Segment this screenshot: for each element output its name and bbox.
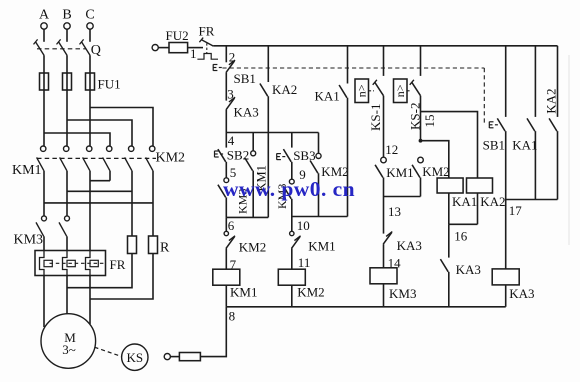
fuse FU1 phase C	[86, 73, 95, 90]
FR heater element B	[63, 251, 68, 276]
wire node7 to KM1 coil	[225, 248, 227, 269]
svg-text:KM2: KM2	[422, 164, 449, 179]
coil KM2	[278, 269, 305, 285]
speed switch KS-2 box n>	[394, 79, 408, 103]
switch Q pole B	[58, 42, 67, 56]
coil KM3	[370, 268, 397, 284]
pushbutton SB2 (NO)	[218, 149, 226, 162]
wire KA2 right to node 17	[557, 131, 559, 199]
wire KA1 right to node 17	[534, 131, 536, 199]
resistor R1	[128, 236, 137, 254]
junction dot	[419, 139, 423, 143]
wire dot to KA1 coil	[421, 141, 449, 178]
wire phase C drop	[89, 29, 91, 42]
coil KA2	[467, 178, 493, 193]
svg-text:C: C	[85, 8, 94, 23]
switch Q pole A	[35, 42, 44, 56]
SB1 linkage dashed horizontal	[222, 67, 484, 69]
wire phase B drop	[66, 29, 68, 42]
control supply terminal	[152, 45, 158, 51]
svg-text:15: 15	[422, 115, 437, 128]
wire FR out C to motor	[89, 276, 91, 325]
wire KM2 pole1 output	[109, 171, 111, 181]
svg-text:KM2: KM2	[239, 240, 266, 255]
svg-text:SB1: SB1	[483, 137, 505, 152]
wire SB3 to KM3 aux right	[291, 162, 293, 179]
wire node10 to KM1 NC	[291, 217, 293, 232]
wire rail to KA2 contact	[267, 46, 269, 82]
wire FU2 to FR contact	[188, 47, 203, 49]
wire KA2 coil bottom	[477, 193, 479, 224]
contactor aux contact KM2 (KS branch)	[418, 157, 424, 163]
wire KM1 pole A output	[43, 171, 45, 216]
wire node4 to SB2	[225, 133, 227, 148]
relay contact KA3 (NO) bottom	[440, 259, 448, 272]
svg-text:www. pw0. cn: www. pw0. cn	[223, 177, 355, 201]
svg-text:KM2: KM2	[156, 151, 186, 166]
contactor KM2 main contacts	[107, 146, 112, 151]
svg-text:KA2: KA2	[480, 194, 505, 209]
relay contact KA3 (NC) nodes 3-4	[226, 98, 235, 110]
svg-text:KM1: KM1	[230, 285, 257, 300]
wire KS-1 to node 12	[383, 96, 385, 158]
contactor contact KM2 (NC) nodes 6-7	[224, 231, 228, 235]
svg-text:3~: 3~	[62, 342, 76, 357]
wire rail to KA2 right	[557, 46, 559, 117]
wire KM3 out 1	[43, 236, 45, 250]
wire node17 to KA3 coil	[505, 200, 507, 269]
wire node15 tap to KA2 coil	[421, 112, 478, 178]
wire KM1 aux down	[383, 178, 385, 197]
pushbutton SB1 stop (NC)	[226, 61, 235, 73]
wire node4 to KM2 selflock	[318, 133, 320, 154]
wire node4 to KM1 selflock	[252, 133, 254, 151]
switch Q linkage dashed	[37, 48, 86, 50]
wire KM3 coil to rail 8	[383, 284, 385, 307]
wire SB1 right to node 17	[505, 131, 507, 199]
wire KA2 contact to node6	[267, 96, 269, 217]
wire KM1 selflock to node6	[252, 171, 254, 218]
node 6 horizontal wire	[226, 216, 268, 218]
wire KM3aux to node6	[225, 197, 227, 217]
wire node11 to KM2 coil	[291, 248, 293, 269]
svg-text:KM1: KM1	[12, 163, 42, 178]
svg-text:KM2: KM2	[297, 285, 324, 300]
wire R2 bottom join	[90, 254, 153, 300]
fuse FU2	[169, 43, 188, 53]
relay contact KA1 (NO)	[339, 85, 347, 98]
wire A to fuse	[43, 55, 45, 146]
FR contact (NC thermal)	[201, 40, 213, 47]
svg-text:12: 12	[385, 142, 398, 157]
wire join KM1/KM2 aux bottoms	[384, 196, 421, 198]
svg-text:13: 13	[388, 204, 401, 219]
svg-text:KS: KS	[126, 350, 143, 365]
wire FR out A to motor	[43, 276, 45, 328]
wire KM2 aux down to join	[420, 178, 422, 197]
svg-text:10: 10	[297, 218, 310, 233]
wire KM1 pole C output down to FR	[89, 171, 91, 251]
svg-text:KA3: KA3	[509, 286, 534, 301]
svg-text:B: B	[62, 8, 71, 23]
wire KM1 coil to rail 8	[225, 285, 227, 307]
FR heater element A	[40, 251, 45, 276]
contactor aux contact KM2 self-lock	[316, 153, 321, 158]
svg-text:KA1: KA1	[452, 194, 477, 209]
wire rail to KA1 right	[534, 46, 536, 117]
node 17 horizontal wire	[506, 199, 558, 201]
contactor KM3 contact 2	[65, 216, 70, 221]
wire KA1 contact to node10	[347, 98, 349, 217]
wire node14 to KM3 coil	[383, 244, 385, 268]
bottom rail (line 8)	[226, 306, 505, 308]
KM1 KM2 linkage dashed	[37, 157, 156, 159]
wire KM1 pole B output	[66, 171, 68, 216]
svg-text:KA1: KA1	[315, 88, 340, 103]
contactor aux contact KM1 (KS branch)	[381, 157, 387, 163]
speed relay KS linkage dashed	[95, 347, 122, 356]
wire KA3 coil to rail 8	[505, 285, 507, 307]
svg-text:FU1: FU1	[98, 77, 121, 92]
SB1 linkage dashed vertical	[483, 68, 485, 125]
control fuse bottom	[179, 353, 200, 361]
switch Q pole C	[81, 42, 90, 56]
wire node16 to KA3 contact	[448, 224, 450, 257]
svg-text:6: 6	[228, 218, 235, 233]
wire tap phase B to KM2 pole2	[67, 120, 132, 146]
wire bridge KM1C-KM2p1	[90, 180, 110, 182]
svg-text:KM1: KM1	[308, 238, 335, 253]
wire KM2 pole2 output to R1	[131, 171, 133, 236]
wire KA3 contact to rail 8	[448, 272, 450, 307]
speed switch KS-2 contact	[412, 82, 421, 96]
wire KM2 selflock to node10	[318, 173, 320, 216]
wire tap phase A to KM2 pole1	[44, 133, 110, 146]
wire KA3 to node 4	[225, 110, 227, 133]
pushbutton SB1 start-brake (NO) right	[488, 122, 490, 128]
wire R1 bottom join	[67, 254, 132, 288]
relay contact KA2 (NO) right	[549, 118, 557, 131]
wire KM3 out 2	[66, 236, 68, 250]
scan artifact right edge	[568, 55, 570, 245]
wire KM2 pole3 output to R2	[152, 171, 154, 236]
svg-text:17: 17	[509, 203, 523, 218]
svg-text:FR: FR	[110, 257, 126, 272]
wire node 16 horizontal	[449, 223, 478, 225]
wire rail to KS-2	[420, 46, 422, 76]
wire KM2 coil to rail 8	[291, 285, 293, 307]
speed switch KS-1 contact	[375, 82, 384, 96]
fuse FU1 phase A	[40, 73, 49, 90]
contactor aux contact KM3 (right)	[289, 179, 294, 184]
contactor aux contact KM1 self-lock	[251, 151, 256, 156]
wire B to fuse	[66, 55, 68, 146]
wire bridge B row	[67, 190, 132, 192]
wire rail to SB1	[225, 46, 227, 63]
svg-text:KA3: KA3	[456, 262, 481, 277]
wire rail to SB1 right	[505, 46, 507, 117]
svg-text:Q: Q	[91, 43, 101, 58]
svg-text:KM1: KM1	[386, 165, 413, 180]
wire SB2 to KM3 aux	[225, 162, 227, 178]
coil KA1	[437, 178, 463, 193]
wire SB1 to KA3	[225, 73, 227, 101]
svg-text:R: R	[160, 241, 170, 256]
svg-text:SB1: SB1	[234, 71, 256, 86]
svg-text:KA2: KA2	[543, 89, 558, 114]
node 10 horizontal wire	[292, 216, 348, 218]
wire rail to KA1 contact	[347, 46, 349, 84]
wire node4 to SB3	[291, 133, 293, 148]
svg-text:KS-1: KS-1	[368, 104, 383, 131]
pushbutton SB3 (NO)	[283, 149, 291, 162]
wire FR out B to motor	[66, 276, 68, 315]
relay contact KA2 (NO)	[260, 84, 268, 97]
thermal relay FR box	[35, 251, 106, 276]
wire rail8 down to fuse	[200, 307, 226, 357]
svg-text:KA3: KA3	[397, 238, 422, 253]
svg-text:16: 16	[454, 228, 468, 243]
svg-text:SB3: SB3	[293, 148, 315, 163]
wire fuse to terminal	[170, 356, 179, 358]
contactor KM3 contact 1	[42, 216, 47, 221]
coil KA3	[492, 269, 519, 285]
relay contact KA3 (NC) nodes 13-14	[383, 233, 392, 245]
contactor contact KM1 (NC) nodes 10-11	[290, 231, 294, 235]
resistor R2	[149, 236, 158, 254]
relay contact KA1 (NO) right	[527, 118, 535, 131]
svg-text:KA3: KA3	[234, 105, 259, 120]
svg-text:8: 8	[229, 308, 236, 323]
contactor KM1 main contacts	[41, 146, 46, 151]
wire to node 13	[383, 197, 385, 234]
svg-text:11: 11	[298, 255, 311, 270]
control top rail (line 1)	[213, 45, 557, 47]
speed relay KS	[122, 344, 148, 370]
control supply terminal bottom	[164, 354, 170, 360]
speed switch KS-1 box n>	[355, 79, 369, 103]
wire C to fuse	[89, 55, 91, 146]
wire KA1 coil bottom	[448, 193, 450, 224]
FR heaters linkage dashed	[50, 262, 105, 264]
FR heater element C	[86, 251, 91, 276]
motor M 3~	[41, 314, 96, 369]
coil KM1	[213, 269, 240, 285]
svg-text:n>: n>	[393, 84, 407, 97]
svg-text:FR: FR	[199, 24, 215, 39]
svg-text:KM3: KM3	[14, 233, 44, 248]
node 4 horizontal wire	[226, 132, 318, 134]
wire KM3aux right to node10	[291, 199, 293, 217]
wire rail to KS-1	[383, 46, 385, 76]
svg-text:KM3: KM3	[389, 286, 416, 301]
wire bridge A row	[44, 202, 153, 204]
fuse FU1 phase B	[63, 73, 72, 90]
svg-text:n>: n>	[355, 84, 369, 97]
svg-text:4: 4	[228, 133, 235, 148]
svg-text:KA2: KA2	[272, 82, 297, 97]
wire node6 to KM2 NC	[225, 217, 227, 231]
contactor aux contact KM3 (left)	[224, 178, 229, 183]
wire tap phase C to KM2 pole3	[90, 108, 153, 146]
svg-text:FU2: FU2	[166, 28, 189, 43]
wire terminal to FU2	[158, 47, 169, 49]
wire KS-2 to node 15	[420, 96, 422, 141]
svg-text:A: A	[39, 8, 50, 23]
wire phase A drop	[43, 29, 45, 42]
svg-text:1: 1	[190, 46, 197, 61]
svg-text:KA1: KA1	[512, 137, 537, 152]
